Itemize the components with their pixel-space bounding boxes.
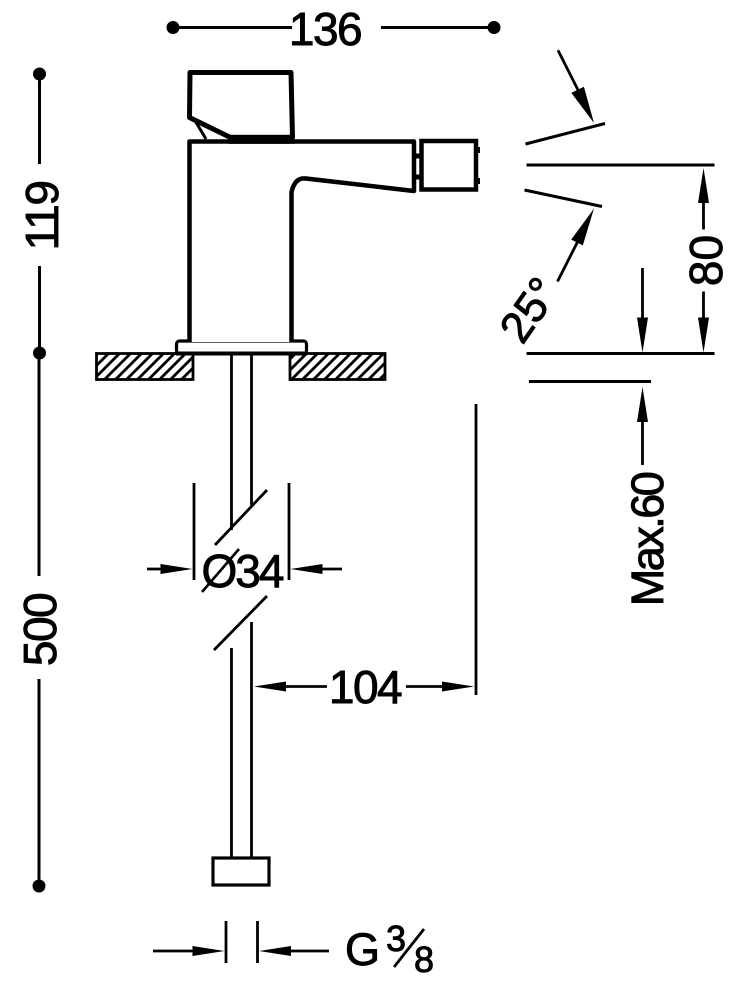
handle <box>190 73 293 138</box>
aerator right-edge extension line <box>475 404 478 695</box>
hose end nut <box>213 858 269 885</box>
supply pipe right line upper segment <box>250 355 253 505</box>
angle lower jaw line <box>525 190 603 207</box>
svg-text:500: 500 <box>14 594 66 666</box>
supply pipe left line upper segment <box>230 355 233 530</box>
faucet body and spout outline <box>190 142 415 343</box>
countertop top extension line <box>527 352 715 355</box>
dimension diameter 34 right arrow <box>291 564 323 574</box>
dimension 104 line right arrow <box>406 685 446 688</box>
dimension 80 lower arrow <box>702 292 705 321</box>
dimension diameter 34 left arrow <box>147 568 164 571</box>
diameter slash through O <box>202 549 239 592</box>
dimension 500 line lower segment <box>38 679 41 882</box>
svg-text:8: 8 <box>414 939 434 980</box>
aerator right upper bump <box>476 147 480 153</box>
dimension 136 line left segment <box>177 26 292 29</box>
handle lever stem <box>194 119 206 139</box>
G 3/8 right extension line <box>256 921 259 963</box>
svg-text:119: 119 <box>16 182 68 251</box>
base flange <box>177 341 307 354</box>
dimension 119 line upper segment <box>38 78 41 164</box>
G 3/8 left extension line <box>225 921 228 963</box>
aerator joint lower tab <box>415 175 422 180</box>
dimension 119 bottom dot <box>33 347 46 360</box>
G 3/8 label fraction slash <box>394 929 424 967</box>
dimension 136 line right segment <box>381 26 490 29</box>
aerator end piece <box>422 141 477 190</box>
svg-text:3: 3 <box>386 918 406 959</box>
dimension 119 line lower segment <box>38 266 41 349</box>
G 3/8 left arrow <box>153 950 196 953</box>
spout axis extension line <box>527 164 715 167</box>
base flange bottom edge <box>176 352 307 356</box>
G 3/8 right arrow <box>259 946 291 956</box>
dimension 80 upper arrow <box>698 168 709 203</box>
dimension diameter 34 left extension line <box>193 483 196 580</box>
25 degree arrow <box>558 241 579 282</box>
dimension 119 top dot <box>33 68 46 81</box>
dimension 136 right dot <box>488 21 501 34</box>
dimension Max.60 upper arrow <box>641 268 644 320</box>
dimension 500 line upper segment <box>38 357 41 576</box>
dimension 500 bottom dot <box>33 880 46 893</box>
supply pipe left line lower segment <box>230 648 233 858</box>
pipe break upper diagonal <box>215 490 267 545</box>
svg-text:80: 80 <box>680 235 732 286</box>
svg-text:Max.60: Max.60 <box>622 472 673 606</box>
dimension diameter 34 right extension line <box>288 483 291 580</box>
dimension 104 line left arrow <box>254 682 286 692</box>
countertop right hatched block <box>290 354 385 380</box>
countertop bottom extension line <box>529 380 651 383</box>
angle pointer arrow top <box>558 50 578 90</box>
supply pipe right line lower segment <box>250 622 253 858</box>
svg-text:136: 136 <box>289 3 361 55</box>
pipe break lower diagonal <box>214 596 267 650</box>
aerator right lower bump <box>476 178 480 184</box>
svg-text:O34: O34 <box>202 545 284 597</box>
dimension 136 left dot <box>167 21 180 34</box>
handle base merged edge <box>228 135 295 144</box>
aerator joint upper tab <box>415 154 422 159</box>
angle upper jaw line <box>526 124 606 145</box>
dimension Max.60 lower arrow <box>637 387 648 422</box>
svg-text:104: 104 <box>329 661 402 713</box>
countertop left hatched block <box>97 354 194 380</box>
svg-text:G: G <box>345 924 380 975</box>
